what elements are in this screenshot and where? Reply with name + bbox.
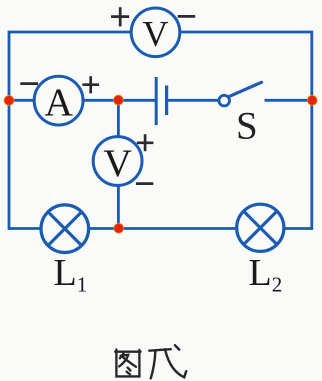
lamp L2 [237, 204, 284, 251]
lamp L1 [41, 205, 89, 253]
switch S [219, 82, 262, 106]
svg-text:V: V [103, 141, 132, 185]
polarity label - of V1 [178, 15, 196, 18]
svg-text:V: V [143, 14, 169, 54]
wire: top horizontal (voltmeter V1 branch) [9, 31, 312, 34]
svg-text:A: A [45, 80, 74, 124]
svg-text:L2: L2 [249, 252, 283, 297]
wire: battery to switch segment [167, 99, 220, 102]
voltmeter V2 (middle branch) [93, 137, 142, 186]
junction dot: right (switch to right vertical) [307, 95, 317, 105]
wire: middle row left segment (to battery) [9, 99, 156, 102]
wire: right vertical [310, 31, 313, 230]
junction dot: lamp row / V2 branch node [114, 223, 124, 233]
caption: Chinese character TU (figure) drawn as paths [115, 350, 140, 377]
voltmeter V1 (top) [131, 8, 180, 57]
wire: left vertical [8, 31, 11, 230]
svg-text:S: S [236, 105, 258, 148]
polarity label - of V2 [136, 182, 153, 185]
wire: bottom lamp row [9, 227, 312, 230]
polarity label + of ammeter [82, 76, 99, 93]
ammeter A [34, 76, 83, 125]
svg-text:L1: L1 [54, 252, 88, 297]
wire: switch to right vertical segment [265, 99, 312, 102]
polarity label + of V2 [137, 134, 154, 151]
junction dot: battery/V2 node [114, 95, 124, 105]
wire: voltmeter V2 branch vertical [117, 100, 120, 228]
caption: Chinese character WU drawn as paths [149, 345, 186, 378]
junction dot: left (node on left vertical) [4, 96, 14, 106]
polarity label - of ammeter [20, 82, 38, 85]
battery B1 [156, 77, 166, 125]
polarity label + of V1 [111, 7, 129, 26]
